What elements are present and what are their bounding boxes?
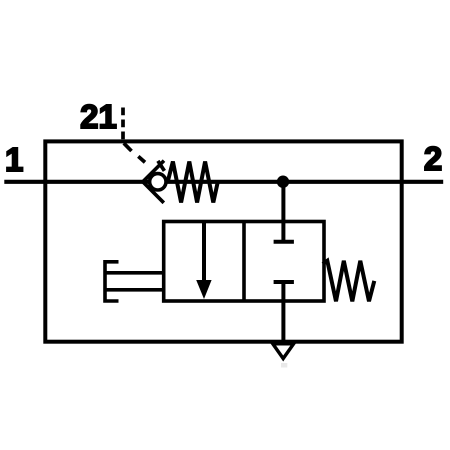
junction node on main line (277, 176, 289, 188)
pilot actuator upper rail (105, 271, 164, 275)
pilot actuator lower rail (105, 288, 164, 292)
valve position divider (242, 222, 246, 302)
blocked port upper T crossbar (274, 240, 294, 244)
exhaust artifact mark (281, 363, 287, 368)
exhaust triangle (273, 344, 294, 359)
check valve seat V (143, 161, 164, 203)
pilot line 21 (dashed diagonal dash a) (124, 143, 132, 151)
open position arrow shaft (202, 222, 206, 285)
open position arrow head (196, 280, 211, 299)
svg-text:1: 1 (5, 141, 23, 178)
check valve spring (168, 162, 218, 203)
return spring (323, 261, 375, 302)
pilot line 21 (dashed vertical segment) (121, 108, 125, 142)
pilot line 21 (dashed diagonal dash c crossing seat) (158, 161, 165, 171)
wire: main flow line port 1 to port 2 (4, 180, 443, 184)
enclosure box (valve assembly boundary) (45, 141, 401, 341)
wire: pilot branch from junction down into valve (281, 182, 285, 244)
svg-text:21: 21 (80, 98, 117, 135)
pilot actuator bracket (105, 262, 119, 301)
svg-text:2: 2 (424, 140, 442, 177)
blocked port lower T crossbar (274, 280, 294, 284)
check valve poppet circle (150, 174, 166, 190)
wire: exhaust line from lower T to bottom of box (281, 282, 285, 342)
2/2 valve body outline (164, 222, 324, 302)
pilot line 21 (dashed diagonal dash b) (138, 156, 145, 162)
